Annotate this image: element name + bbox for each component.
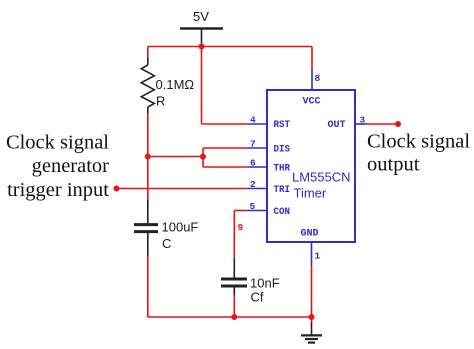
svg-text:5V: 5V (193, 9, 209, 24)
svg-text:100uF: 100uF (162, 220, 199, 235)
svg-text:Clock signal: Clock signal (6, 131, 109, 153)
svg-text:OUT: OUT (328, 120, 346, 131)
svg-text:C: C (162, 236, 171, 251)
svg-text:Clock signal: Clock signal (367, 131, 470, 153)
svg-text:3: 3 (360, 115, 366, 126)
svg-text:LM555CN: LM555CN (292, 170, 351, 185)
svg-text:4: 4 (250, 115, 256, 126)
svg-text:DIS: DIS (274, 145, 291, 156)
svg-text:R: R (156, 94, 165, 109)
svg-text:THR: THR (274, 164, 291, 175)
svg-text:7: 7 (250, 139, 256, 150)
svg-text:Cf: Cf (251, 290, 264, 305)
svg-text:VCC: VCC (303, 97, 321, 108)
svg-text:GND: GND (301, 229, 319, 240)
svg-text:9: 9 (238, 222, 244, 233)
svg-text:5: 5 (250, 201, 256, 212)
svg-text:TRI: TRI (274, 185, 291, 196)
svg-text:trigger input: trigger input (7, 179, 109, 201)
svg-text:generator: generator (32, 155, 110, 177)
svg-text:output: output (367, 154, 420, 176)
svg-text:10nF: 10nF (250, 276, 280, 291)
svg-text:6: 6 (250, 158, 256, 169)
svg-text:CON: CON (274, 207, 291, 218)
svg-text:0.1MΩ: 0.1MΩ (156, 77, 195, 92)
svg-text:RST: RST (274, 120, 291, 131)
svg-text:1: 1 (315, 251, 321, 262)
svg-text:Timer: Timer (294, 186, 327, 201)
svg-text:2: 2 (250, 179, 256, 190)
svg-text:8: 8 (315, 73, 321, 84)
